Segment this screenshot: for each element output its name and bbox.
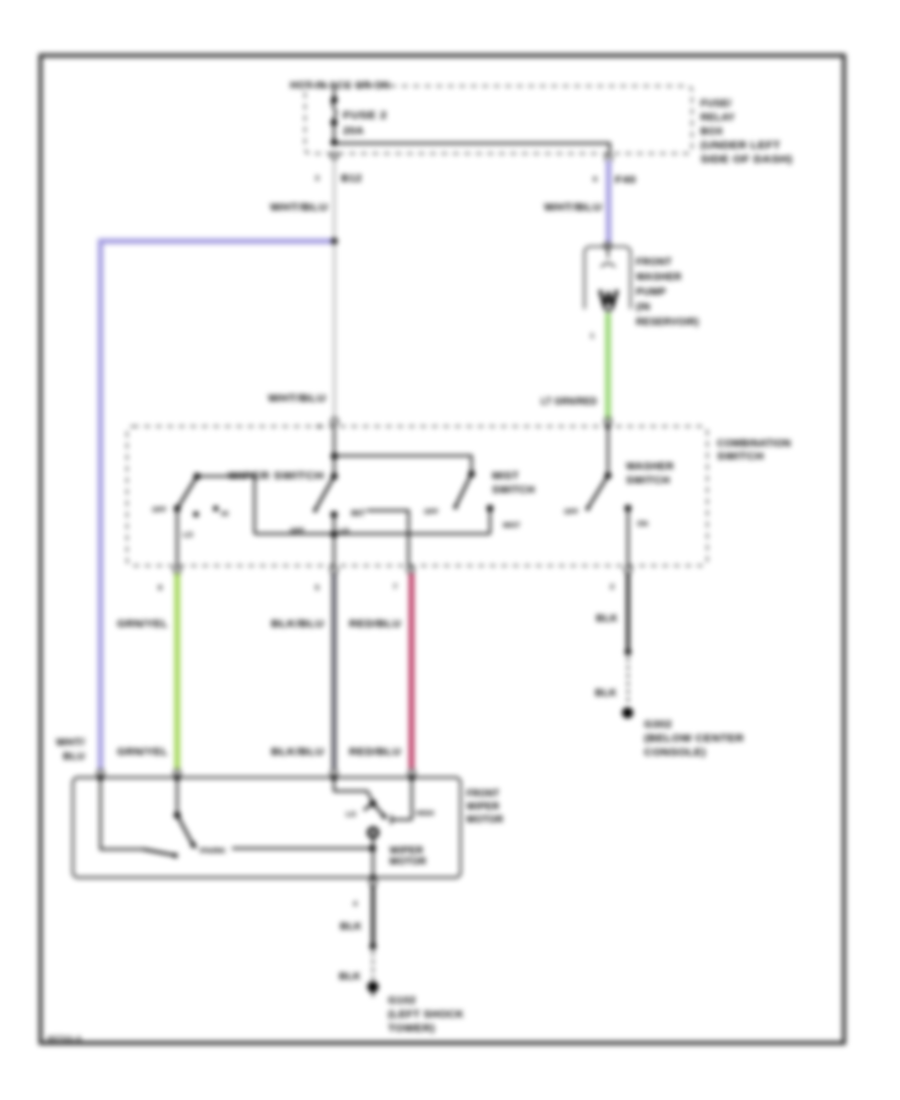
svg-text:BLK: BLK <box>340 922 362 933</box>
switch SW2 wiper switch gang 2 <box>313 473 365 566</box>
combination switch box (dashed enclosure) <box>127 426 707 565</box>
svg-text:TOWER): TOWER) <box>388 1024 435 1035</box>
svg-text:WHT/BLU: WHT/BLU <box>544 203 602 214</box>
svg-text:WHT/: WHT/ <box>56 738 85 749</box>
svg-text:WHT/BLU: WHT/BLU <box>270 203 328 214</box>
ground G102 <box>367 981 378 996</box>
svg-text:GRN/YEL: GRN/YEL <box>117 747 168 758</box>
node fuse top terminal <box>331 97 338 104</box>
svg-text:MOTOR: MOTOR <box>390 857 427 868</box>
svg-text:7: 7 <box>393 582 397 591</box>
svg-text:PUMP: PUMP <box>636 287 666 298</box>
svg-text:WIPER: WIPER <box>467 802 500 813</box>
wire WHT/BLU colored band to wiper motor <box>101 241 335 768</box>
svg-text:B12: B12 <box>341 174 362 185</box>
label FRONT WASHER PUMP (IN RESERVOIR) <box>636 257 699 328</box>
node speed selector pivot <box>370 800 377 807</box>
switch HI arm with arrowhead <box>373 803 391 824</box>
svg-text:WASHER: WASHER <box>636 272 682 283</box>
wire LT GRN/RED washer pump to switch <box>605 313 610 420</box>
pin terminal ring motor GRN/YEL <box>174 770 181 777</box>
fuse/relay box (dashed enclosure) <box>305 86 692 154</box>
svg-text:HI: HI <box>221 509 228 518</box>
svg-text:20A: 20A <box>343 126 364 137</box>
svg-text:RED/BLU: RED/BLU <box>349 619 401 630</box>
node motor terminal BLK/BLU <box>331 775 337 781</box>
wire feed into wiper switch <box>333 426 335 476</box>
svg-text:(UNDER LEFT: (UNDER LEFT <box>701 141 781 152</box>
svg-text:LO: LO <box>339 526 349 535</box>
wire BLK dashed segment to ground <box>627 658 629 704</box>
label COMBINATION SWITCH <box>717 439 791 463</box>
fuse F2 (FUSE 2 20A) <box>331 100 388 137</box>
svg-text:(LEFT SHOCK: (LEFT SHOCK <box>388 1010 464 1021</box>
svg-text:RELAY: RELAY <box>701 113 736 124</box>
svg-text:RESERVOIR): RESERVOIR) <box>636 317 699 328</box>
label G102 (LEFT SHOCK TOWER) <box>388 996 464 1035</box>
node dash on combination box edge <box>317 425 323 427</box>
svg-text:(IN: (IN <box>636 302 650 313</box>
svg-text:MOTOR: MOTOR <box>467 815 504 826</box>
wire GRN/YEL band <box>175 574 180 769</box>
wire HI contact to RED/BLU <box>367 511 409 567</box>
node wiper feed junction <box>331 453 338 460</box>
switch SW4 washer switch <box>564 427 674 566</box>
switch park contact arm <box>143 849 174 855</box>
pin terminal washer switch feed <box>605 418 612 425</box>
svg-text:WHT/BLU: WHT/BLU <box>268 394 326 405</box>
svg-text:BLK/BLU: BLK/BLU <box>271 619 324 630</box>
label FUSE/RELAY BOX (UNDER LEFT SIDE OF DASH) <box>701 99 793 166</box>
label G302 (BELOW CENTER CONSOLE) <box>644 720 745 759</box>
wire BLK motor to G102 <box>371 885 375 947</box>
svg-text:RED/BLU: RED/BLU <box>349 747 401 758</box>
pin terminal ring pin 7 <box>407 567 414 574</box>
svg-text:OFF: OFF <box>564 507 579 516</box>
wire LO feed inside motor <box>334 778 373 802</box>
svg-text:G302: G302 <box>644 720 672 731</box>
wire RED/BLU band <box>409 574 414 769</box>
svg-text:MIST: MIST <box>492 471 519 482</box>
front wiper motor box M1 <box>73 778 461 878</box>
svg-text:COMBINATION: COMBINATION <box>717 439 791 450</box>
svg-text:OFF: OFF <box>152 505 167 514</box>
svg-text:BLK/BLU: BLK/BLU <box>271 747 324 758</box>
motor M armature symbol <box>369 828 378 837</box>
pin terminal ring motor RED/BLU <box>409 770 416 777</box>
svg-text:INT: INT <box>351 509 365 518</box>
svg-text:2: 2 <box>610 582 614 591</box>
pin terminal ring pin 5 <box>331 567 338 574</box>
pin terminal ring pin 2 <box>625 567 632 574</box>
svg-text:BOX: BOX <box>701 127 724 138</box>
svg-text:BLK: BLK <box>596 614 618 625</box>
svg-text:OFF: OFF <box>290 526 305 535</box>
node BLK splice <box>625 649 632 656</box>
wire RED/BLU feed inside motor <box>411 778 413 820</box>
label WHT/BLU (left, two lines) <box>56 738 85 763</box>
wire WHT/BLU thin down to combination switch <box>333 241 335 418</box>
svg-text:OFF: OFF <box>424 507 439 516</box>
wire BLK dashed segment to G102 <box>372 952 374 979</box>
switch SW1 wiper switch gang 1 <box>152 471 324 566</box>
node BLK splice (G102) <box>370 943 377 950</box>
svg-text:F40: F40 <box>615 175 636 186</box>
svg-text:8: 8 <box>158 583 162 592</box>
node motor terminal WHT/BLU <box>98 775 104 781</box>
node motor ground terminal <box>370 875 376 881</box>
switch SW3 mist switch <box>424 471 535 534</box>
ground G302 <box>622 707 633 718</box>
svg-text:FUSE/: FUSE/ <box>701 99 732 110</box>
svg-text:SWITCH: SWITCH <box>492 485 535 496</box>
wire bus to F40 output <box>334 143 610 154</box>
svg-text:LO: LO <box>346 810 356 819</box>
svg-text:FUSE 2: FUSE 2 <box>343 111 387 122</box>
pin terminal ring motor ground <box>370 879 377 886</box>
wire HIGH contact <box>391 819 412 821</box>
wire WHT/BLU colored band to washer pump <box>606 161 611 243</box>
wire wiper switch common bus <box>255 533 491 535</box>
svg-text:3: 3 <box>315 174 319 183</box>
svg-text:MIST: MIST <box>503 521 521 530</box>
node fuse output junction <box>331 139 338 146</box>
svg-text:SIDE OF DASH): SIDE OF DASH) <box>701 155 793 166</box>
pin terminal ring F40 <box>605 155 612 162</box>
svg-text:BLK: BLK <box>595 688 617 699</box>
pin terminal ring motor WHT/BLU <box>97 770 104 777</box>
svg-text:6: 6 <box>593 175 597 184</box>
svg-text:(BELOW CENTER: (BELOW CENTER <box>644 734 745 745</box>
svg-text:BLK: BLK <box>339 972 361 983</box>
label WIPER MOTOR <box>390 846 427 868</box>
node bus junction at BLK/BLU column <box>331 531 338 538</box>
pin terminal ring combination switch wiper feed <box>331 418 338 425</box>
svg-text:SWITCH: SWITCH <box>717 452 764 463</box>
pin terminal ring B12 <box>331 153 338 160</box>
svg-text:CONSOLE): CONSOLE) <box>644 748 706 759</box>
wire branch to mist switch <box>334 456 471 472</box>
svg-text:LO: LO <box>183 530 193 539</box>
svg-text:PARK: PARK <box>200 846 227 855</box>
svg-text:HOT IN ACC OR ON: HOT IN ACC OR ON <box>290 81 390 92</box>
svg-text:LT GRN/RED: LT GRN/RED <box>541 397 597 408</box>
label FRONT WIPER MOTOR <box>467 789 504 826</box>
front washer pump U1 (IN RESERVOIR) <box>585 243 631 311</box>
wire BLK washer switch to G302 <box>626 573 630 652</box>
wire fuse output <box>333 123 335 143</box>
switch SW5 park switch arm <box>174 778 197 849</box>
wire park feed inside motor <box>101 778 144 849</box>
svg-text:FRONT: FRONT <box>467 789 500 800</box>
svg-text:WIPER: WIPER <box>390 846 424 857</box>
switch LO contact stub <box>364 803 373 810</box>
svg-text:G102: G102 <box>388 996 416 1007</box>
svg-text:WASHER: WASHER <box>626 462 674 473</box>
pin terminal ring pin 8 <box>174 567 181 574</box>
svg-text:FRONT: FRONT <box>636 257 672 268</box>
wire armature to ground lead <box>372 837 374 878</box>
svg-text:GRN/YEL: GRN/YEL <box>117 619 168 630</box>
svg-text:BLU: BLU <box>63 752 85 763</box>
svg-text:SWITCH: SWITCH <box>626 476 670 487</box>
wire hot feed into fuse <box>333 88 335 100</box>
pin terminal ring motor BLK/BLU <box>331 770 338 777</box>
svg-text:HIGH: HIGH <box>416 809 434 818</box>
node motor terminal GRN/YEL <box>174 775 180 781</box>
svg-text:95T03-A: 95T03-A <box>47 1036 82 1043</box>
node WHT/BLU junction <box>331 238 338 245</box>
wire WHT/BLU thin from B12 down <box>333 159 335 240</box>
svg-text:ON: ON <box>637 519 648 528</box>
wire park to motor armature <box>232 847 373 849</box>
node motor armature junction <box>369 845 376 852</box>
wire BLK/BLU band <box>332 574 337 769</box>
node motor terminal RED/BLU <box>409 775 415 781</box>
